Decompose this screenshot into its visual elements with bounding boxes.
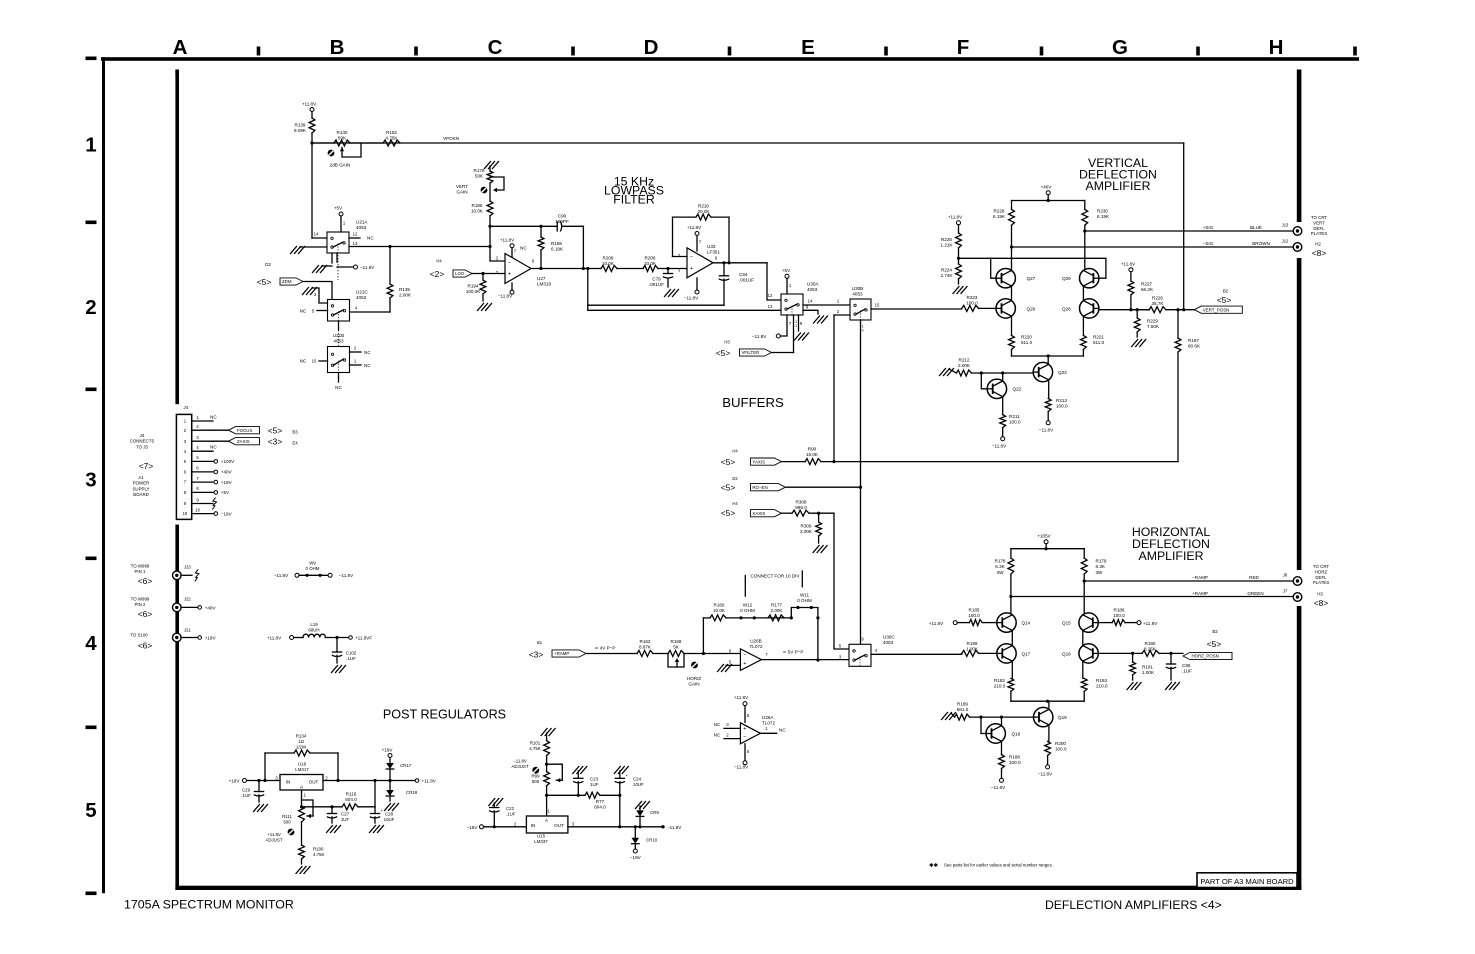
svg-text:1UF: 1UF bbox=[590, 782, 599, 787]
svg-text:POWER: POWER bbox=[133, 481, 150, 486]
svg-text:B2: B2 bbox=[1212, 629, 1218, 634]
svg-text:+19V: +19V bbox=[221, 480, 233, 485]
svg-text:+RAMP: +RAMP bbox=[554, 651, 569, 656]
svg-text:+5V: +5V bbox=[334, 206, 343, 211]
svg-text:6.19K: 6.19K bbox=[1097, 214, 1110, 219]
svg-text:<5>: <5> bbox=[721, 483, 736, 493]
svg-text:W11: W11 bbox=[800, 593, 810, 598]
svg-text:9.09K: 9.09K bbox=[294, 128, 307, 133]
svg-text:GREEN: GREEN bbox=[1247, 591, 1263, 596]
svg-text:8.87K: 8.87K bbox=[639, 645, 652, 650]
svg-text:−11.8V: −11.8V bbox=[734, 765, 749, 770]
svg-text:H: H bbox=[1269, 36, 1284, 59]
svg-text:R224: R224 bbox=[941, 268, 952, 273]
svg-text:RO−EN: RO−EN bbox=[752, 485, 767, 490]
svg-text:−11.8V: −11.8V bbox=[513, 759, 527, 764]
svg-text:H2: H2 bbox=[1315, 242, 1321, 247]
svg-text:R206: R206 bbox=[645, 256, 656, 261]
svg-text:+11.8V: +11.8V bbox=[1143, 621, 1158, 626]
svg-text:1.21K: 1.21K bbox=[940, 243, 953, 248]
svg-text:4053: 4053 bbox=[883, 640, 894, 645]
svg-text:−11.8V: −11.8V bbox=[667, 825, 682, 830]
svg-text:100.0: 100.0 bbox=[1056, 404, 1068, 409]
svg-text:C23: C23 bbox=[590, 777, 599, 782]
svg-text:+: + bbox=[743, 661, 746, 667]
svg-text:5K: 5K bbox=[673, 645, 680, 650]
svg-text:A1: A1 bbox=[138, 475, 144, 480]
svg-text:R179: R179 bbox=[474, 168, 485, 173]
svg-text:CR10: CR10 bbox=[646, 838, 658, 843]
svg-text:+11.8V: +11.8V bbox=[302, 102, 317, 107]
svg-text:TO J5: TO J5 bbox=[136, 444, 148, 449]
svg-text:−RAMP: −RAMP bbox=[1192, 575, 1208, 580]
svg-text:IN: IN bbox=[286, 780, 291, 785]
svg-text:U21C: U21C bbox=[356, 290, 368, 295]
svg-text:R90: R90 bbox=[808, 447, 817, 452]
svg-text:C24: C24 bbox=[633, 777, 642, 782]
svg-text:4: 4 bbox=[85, 632, 97, 655]
svg-text:0: 0 bbox=[861, 329, 863, 333]
svg-text:100.0: 100.0 bbox=[1055, 747, 1067, 752]
svg-text:511.0: 511.0 bbox=[1021, 340, 1033, 345]
svg-text:100.0: 100.0 bbox=[1009, 760, 1021, 765]
svg-text:J13: J13 bbox=[1282, 223, 1289, 228]
svg-text:See parts list for earlier val: See parts list for earlier values and se… bbox=[944, 863, 1053, 868]
svg-text:GAIN: GAIN bbox=[456, 190, 467, 195]
svg-text:100.0K: 100.0K bbox=[466, 289, 481, 294]
svg-text:R197: R197 bbox=[1188, 338, 1199, 343]
svg-text:HORZ_POSN: HORZ_POSN bbox=[1192, 654, 1219, 659]
svg-text:.1UF: .1UF bbox=[346, 656, 356, 661]
svg-text:<5>: <5> bbox=[257, 277, 272, 287]
svg-text:500: 500 bbox=[283, 820, 291, 825]
svg-text:U26B: U26B bbox=[750, 639, 762, 644]
svg-text:C79: C79 bbox=[652, 277, 661, 282]
svg-text:DEFL: DEFL bbox=[1315, 575, 1327, 580]
svg-text:<6>: <6> bbox=[138, 576, 153, 586]
svg-text:10: 10 bbox=[183, 511, 188, 516]
svg-text:U30A: U30A bbox=[807, 282, 819, 287]
svg-text:+11.8V: +11.8V bbox=[267, 832, 281, 837]
svg-text:999.0: 999.0 bbox=[795, 505, 807, 510]
svg-text:TL072: TL072 bbox=[749, 644, 762, 649]
svg-text:NC: NC bbox=[300, 309, 307, 314]
svg-text:100.0: 100.0 bbox=[1009, 420, 1021, 425]
svg-text:68UH: 68UH bbox=[308, 628, 319, 633]
svg-text:+100V: +100V bbox=[221, 459, 235, 464]
svg-text:Q16: Q16 bbox=[1062, 652, 1071, 657]
svg-text:+19V: +19V bbox=[205, 636, 217, 641]
svg-text:−: − bbox=[690, 255, 693, 261]
svg-text:−11.8V: −11.8V bbox=[1038, 772, 1053, 777]
svg-text:AMPLIFIER: AMPLIFIER bbox=[1139, 549, 1204, 563]
svg-text:1UF: 1UF bbox=[341, 817, 350, 822]
svg-text:R229: R229 bbox=[1147, 319, 1158, 324]
svg-text:.1UF: .1UF bbox=[1182, 669, 1192, 674]
svg-text:2.00K: 2.00K bbox=[399, 293, 412, 298]
svg-text:10.0K: 10.0K bbox=[713, 608, 726, 613]
svg-text:<5>: <5> bbox=[1217, 295, 1232, 305]
svg-text:TO W999: TO W999 bbox=[131, 564, 150, 569]
svg-text:VERT: VERT bbox=[456, 184, 468, 189]
svg-text:50K: 50K bbox=[338, 136, 347, 141]
svg-text:R188: R188 bbox=[551, 241, 562, 246]
svg-text:100.0: 100.0 bbox=[966, 301, 978, 306]
svg-text:R199: R199 bbox=[967, 641, 978, 646]
svg-text:2dB GAIN: 2dB GAIN bbox=[330, 163, 351, 168]
svg-text:R139: R139 bbox=[295, 123, 306, 128]
svg-text:H4: H4 bbox=[436, 259, 442, 264]
svg-text:CR9: CR9 bbox=[650, 810, 659, 815]
svg-text:J12: J12 bbox=[1282, 239, 1289, 244]
svg-text:−19V: −19V bbox=[467, 825, 479, 830]
svg-text:+19V: +19V bbox=[382, 748, 394, 753]
svg-text:3W: 3W bbox=[997, 570, 1005, 575]
svg-text:100PF: 100PF bbox=[555, 219, 569, 224]
svg-text:4.75K: 4.75K bbox=[313, 852, 325, 857]
svg-text:+: + bbox=[743, 726, 746, 732]
svg-text:J22: J22 bbox=[184, 597, 191, 602]
svg-text:2.00K: 2.00K bbox=[958, 363, 971, 368]
svg-text:R185: R185 bbox=[969, 608, 980, 613]
svg-text:1.00K: 1.00K bbox=[966, 647, 979, 652]
svg-text:U15: U15 bbox=[537, 834, 546, 839]
svg-text:ADJUST: ADJUST bbox=[511, 764, 528, 769]
svg-text:TO CRT: TO CRT bbox=[1311, 215, 1327, 220]
svg-text:511.0: 511.0 bbox=[1093, 340, 1105, 345]
svg-text:R168: R168 bbox=[671, 639, 682, 644]
svg-text:+19V: +19V bbox=[229, 779, 241, 784]
svg-text:6.3K: 6.3K bbox=[1096, 564, 1106, 569]
svg-text:+11.8V: +11.8V bbox=[687, 225, 702, 230]
svg-text:PART OF A3 MAIN BOARD: PART OF A3 MAIN BOARD bbox=[1200, 877, 1294, 886]
svg-text:VFILTER: VFILTER bbox=[742, 350, 760, 355]
svg-text:210.0: 210.0 bbox=[994, 684, 1006, 689]
svg-text:R200: R200 bbox=[1055, 741, 1066, 746]
svg-text:13: 13 bbox=[768, 304, 773, 309]
svg-text:<5>: <5> bbox=[716, 348, 731, 358]
svg-text:≃ 5V P−P: ≃ 5V P−P bbox=[783, 650, 804, 655]
svg-text:ZDM: ZDM bbox=[282, 279, 292, 284]
svg-text:−: − bbox=[743, 734, 746, 740]
svg-text:+40V: +40V bbox=[205, 605, 217, 610]
svg-text:R177: R177 bbox=[771, 603, 782, 608]
svg-text:2: 2 bbox=[85, 296, 96, 319]
svg-text:10.0K: 10.0K bbox=[471, 209, 484, 214]
svg-text:R135: R135 bbox=[399, 287, 410, 292]
svg-text:604.0: 604.0 bbox=[594, 805, 606, 810]
svg-text:CR17: CR17 bbox=[400, 763, 412, 768]
svg-text:R182: R182 bbox=[994, 678, 1005, 683]
svg-text:NC: NC bbox=[367, 236, 374, 241]
svg-text:8.25K: 8.25K bbox=[1144, 647, 1157, 652]
svg-text:R179: R179 bbox=[1096, 559, 1107, 564]
svg-text:−: − bbox=[508, 260, 511, 266]
svg-text:R191: R191 bbox=[1142, 665, 1153, 670]
svg-text:C102: C102 bbox=[346, 651, 357, 656]
svg-text:✱✱: ✱✱ bbox=[929, 863, 938, 869]
svg-text:1705A SPECTRUM MONITOR: 1705A SPECTRUM MONITOR bbox=[124, 898, 294, 912]
svg-text:IN: IN bbox=[531, 823, 536, 828]
svg-text:+40V: +40V bbox=[221, 470, 233, 475]
svg-text:R140: R140 bbox=[337, 130, 348, 135]
svg-text:10UF: 10UF bbox=[384, 817, 395, 822]
svg-text:NC: NC bbox=[300, 359, 307, 364]
svg-text:56.2K: 56.2K bbox=[1141, 287, 1154, 292]
svg-text:R308: R308 bbox=[796, 500, 807, 505]
svg-text:R186: R186 bbox=[472, 203, 483, 208]
svg-text:0 OHM: 0 OHM bbox=[306, 566, 320, 571]
svg-text:R226: R226 bbox=[1152, 296, 1163, 301]
svg-text:<7>: <7> bbox=[139, 461, 154, 471]
svg-text:6.3K: 6.3K bbox=[995, 564, 1005, 569]
svg-text:BUFFERS: BUFFERS bbox=[722, 395, 784, 410]
svg-text:681.0: 681.0 bbox=[957, 707, 969, 712]
svg-text:<5>: <5> bbox=[268, 426, 283, 436]
svg-text:<6>: <6> bbox=[138, 609, 153, 619]
svg-text:W12: W12 bbox=[743, 603, 753, 608]
svg-text:.1UF: .1UF bbox=[241, 793, 251, 798]
svg-text:G: G bbox=[1112, 36, 1128, 59]
svg-text:5: 5 bbox=[85, 799, 96, 822]
svg-text:H4: H4 bbox=[732, 449, 738, 454]
svg-text:B3: B3 bbox=[292, 430, 298, 435]
svg-text:<2>: <2> bbox=[430, 269, 445, 279]
svg-text:SUPPLY: SUPPLY bbox=[132, 486, 149, 491]
svg-text:C29: C29 bbox=[242, 788, 251, 793]
svg-text:NC: NC bbox=[335, 385, 342, 390]
svg-text:10: 10 bbox=[195, 507, 200, 512]
svg-text:CR18: CR18 bbox=[406, 790, 418, 795]
svg-text:−11.8V: −11.8V bbox=[1039, 428, 1054, 433]
svg-text:XAXIS: XAXIS bbox=[752, 511, 765, 516]
svg-text:R99: R99 bbox=[531, 774, 540, 779]
svg-text:+11.8V: +11.8V bbox=[929, 621, 944, 626]
svg-text:100.0: 100.0 bbox=[1113, 613, 1125, 618]
svg-text:4053: 4053 bbox=[852, 292, 863, 297]
svg-text:3W: 3W bbox=[1096, 570, 1104, 575]
svg-text:U30C: U30C bbox=[883, 635, 895, 640]
svg-text:−11.8V: −11.8V bbox=[498, 294, 513, 299]
svg-text:−19V: −19V bbox=[221, 511, 233, 516]
svg-text:YAXIS: YAXIS bbox=[752, 459, 765, 464]
svg-text:12: 12 bbox=[768, 293, 773, 298]
svg-text:13: 13 bbox=[353, 241, 358, 246]
svg-text:4053: 4053 bbox=[356, 295, 367, 300]
svg-text:H4: H4 bbox=[732, 501, 738, 506]
svg-text:TO W999: TO W999 bbox=[131, 597, 150, 602]
svg-text:2.74K: 2.74K bbox=[940, 273, 953, 278]
svg-text:U30B: U30B bbox=[852, 286, 864, 291]
svg-text:+105V: +105V bbox=[1037, 534, 1051, 539]
svg-text:HORIZ: HORIZ bbox=[687, 676, 701, 681]
svg-text:<3>: <3> bbox=[268, 437, 283, 447]
svg-text:+SIG: +SIG bbox=[1203, 225, 1214, 230]
svg-text:R186: R186 bbox=[1114, 608, 1125, 613]
svg-text:<6>: <6> bbox=[138, 641, 153, 651]
svg-text:TO S100: TO S100 bbox=[130, 633, 148, 638]
svg-text:<8>: <8> bbox=[1312, 248, 1327, 258]
svg-text:TL072: TL072 bbox=[762, 721, 775, 726]
svg-text:50K: 50K bbox=[475, 174, 484, 179]
svg-text:W9: W9 bbox=[309, 561, 316, 566]
svg-text:NC: NC bbox=[364, 363, 371, 368]
svg-text:R178: R178 bbox=[995, 559, 1006, 564]
svg-text:NC: NC bbox=[210, 415, 217, 420]
svg-text:R209: R209 bbox=[603, 256, 614, 261]
svg-text:Q27: Q27 bbox=[1027, 276, 1036, 281]
svg-text:D2: D2 bbox=[732, 476, 738, 481]
svg-text:+11.8V: +11.8V bbox=[422, 779, 437, 784]
svg-text:2.00K: 2.00K bbox=[770, 608, 783, 613]
svg-text:4.75K: 4.75K bbox=[385, 136, 398, 141]
svg-text:R100: R100 bbox=[313, 847, 324, 852]
svg-text:<8>: <8> bbox=[1314, 598, 1329, 608]
svg-text:R162: R162 bbox=[640, 639, 651, 644]
svg-text:LF351: LF351 bbox=[707, 250, 720, 255]
svg-text:10.0K: 10.0K bbox=[602, 261, 615, 266]
svg-text:R211: R211 bbox=[1009, 414, 1020, 419]
svg-text:GAIN: GAIN bbox=[688, 682, 699, 687]
svg-text:C22: C22 bbox=[506, 806, 515, 811]
svg-text:LM318: LM318 bbox=[537, 282, 551, 287]
svg-text:PLATES: PLATES bbox=[1313, 580, 1330, 585]
svg-text:R116: R116 bbox=[346, 792, 357, 797]
svg-text:FOCUS: FOCUS bbox=[237, 428, 252, 433]
svg-text:Q22: Q22 bbox=[1013, 387, 1022, 392]
svg-text:15.0K: 15.0K bbox=[806, 452, 819, 457]
svg-text:<5>: <5> bbox=[1207, 639, 1222, 649]
svg-text:Q26: Q26 bbox=[1027, 307, 1036, 312]
svg-text:NC: NC bbox=[210, 445, 217, 450]
svg-text:0 OHM: 0 OHM bbox=[740, 608, 755, 613]
svg-text:+11.8V: +11.8V bbox=[948, 215, 963, 220]
svg-text:U33: U33 bbox=[707, 244, 716, 249]
svg-text:NC: NC bbox=[779, 728, 786, 733]
svg-text:1.00K: 1.00K bbox=[1142, 670, 1155, 675]
svg-text:PLATES: PLATES bbox=[1311, 231, 1328, 236]
svg-text:C84: C84 bbox=[739, 272, 748, 277]
svg-text:<3>: <3> bbox=[529, 650, 544, 660]
svg-text:15: 15 bbox=[312, 359, 317, 364]
svg-text:BROWN: BROWN bbox=[1252, 241, 1270, 246]
svg-text:80.6K: 80.6K bbox=[1188, 344, 1201, 349]
svg-text:+11.8V: +11.8V bbox=[267, 636, 282, 641]
svg-text:NC: NC bbox=[714, 733, 721, 738]
svg-text:+40V: +40V bbox=[1041, 184, 1053, 189]
svg-text:R101: R101 bbox=[530, 741, 541, 746]
svg-text:R220: R220 bbox=[1021, 335, 1032, 340]
svg-text:CONNECTS: CONNECTS bbox=[130, 439, 155, 444]
svg-text:+11.8V: +11.8V bbox=[500, 238, 515, 243]
svg-text:R223: R223 bbox=[967, 295, 978, 300]
svg-text:−11.8V: −11.8V bbox=[992, 444, 1007, 449]
svg-text:B1: B1 bbox=[537, 640, 543, 645]
svg-text:B2: B2 bbox=[1223, 289, 1229, 294]
svg-text:1Ω: 1Ω bbox=[298, 739, 304, 744]
svg-text:R212: R212 bbox=[959, 358, 970, 363]
svg-text:+: + bbox=[690, 266, 693, 272]
svg-text:35.7K: 35.7K bbox=[1151, 301, 1164, 306]
svg-text:Q23: Q23 bbox=[1058, 370, 1067, 375]
svg-text:PIN 1: PIN 1 bbox=[135, 569, 147, 574]
svg-text:2.00K: 2.00K bbox=[800, 529, 813, 534]
svg-text:−11.8V: −11.8V bbox=[339, 573, 354, 578]
svg-text:VERT: VERT bbox=[1313, 220, 1325, 225]
svg-text:20.0K: 20.0K bbox=[697, 209, 710, 214]
svg-text:R193: R193 bbox=[1096, 678, 1107, 683]
svg-text:LM337: LM337 bbox=[534, 839, 548, 844]
svg-text:R189: R189 bbox=[957, 702, 968, 707]
svg-text:10UF: 10UF bbox=[633, 782, 644, 787]
svg-text:Q29: Q29 bbox=[1062, 276, 1071, 281]
svg-text:0 OHM: 0 OHM bbox=[797, 598, 812, 603]
svg-text:4053: 4053 bbox=[807, 287, 818, 292]
svg-text:14: 14 bbox=[314, 232, 319, 237]
svg-text:14: 14 bbox=[808, 299, 813, 304]
svg-text:≃ 4V P−P: ≃ 4V P−P bbox=[595, 646, 616, 651]
svg-text:J21: J21 bbox=[184, 628, 191, 633]
svg-text:−SIG: −SIG bbox=[1203, 241, 1214, 246]
svg-text:D: D bbox=[644, 36, 659, 59]
svg-text:PIN 2: PIN 2 bbox=[135, 602, 147, 607]
svg-text:C85: C85 bbox=[1182, 663, 1191, 668]
svg-text:LM317: LM317 bbox=[295, 767, 309, 772]
svg-text:+5V: +5V bbox=[221, 490, 230, 495]
svg-text:15: 15 bbox=[875, 303, 880, 308]
svg-text:J8: J8 bbox=[1283, 573, 1288, 578]
svg-text:.1UF: .1UF bbox=[506, 812, 516, 817]
svg-text:RED: RED bbox=[1249, 575, 1259, 580]
svg-text:R190: R190 bbox=[1145, 641, 1156, 646]
svg-text:4053: 4053 bbox=[356, 225, 367, 230]
svg-text:<5>: <5> bbox=[721, 508, 736, 518]
svg-text:F: F bbox=[957, 36, 970, 59]
svg-text:4.75K: 4.75K bbox=[529, 746, 541, 751]
svg-text:OUT: OUT bbox=[309, 780, 319, 785]
svg-text:7.50K: 7.50K bbox=[1147, 324, 1160, 329]
svg-text:−11.8V: −11.8V bbox=[684, 296, 699, 301]
svg-text:R225: R225 bbox=[941, 237, 952, 242]
svg-text:3: 3 bbox=[85, 469, 96, 492]
svg-text:100.0: 100.0 bbox=[968, 613, 980, 618]
svg-text:B: B bbox=[330, 36, 345, 59]
svg-text:U18: U18 bbox=[298, 762, 307, 767]
svg-text:Q14: Q14 bbox=[1022, 621, 1031, 626]
svg-text:.001UF: .001UF bbox=[739, 278, 754, 283]
svg-text:H3: H3 bbox=[1317, 592, 1323, 597]
svg-text:VERT_POSN: VERT_POSN bbox=[1203, 307, 1230, 312]
svg-text:BLUE: BLUE bbox=[1250, 225, 1262, 230]
svg-text:R309: R309 bbox=[801, 524, 812, 529]
svg-text:R152: R152 bbox=[386, 130, 397, 135]
svg-text:−: − bbox=[743, 653, 746, 659]
svg-text:NC: NC bbox=[520, 246, 527, 251]
svg-text:R221: R221 bbox=[1093, 335, 1104, 340]
svg-text:D2: D2 bbox=[265, 262, 271, 267]
svg-text:−11.8V: −11.8V bbox=[991, 785, 1006, 790]
svg-text:+RAMP: +RAMP bbox=[1192, 591, 1208, 596]
svg-text:C90: C90 bbox=[558, 214, 567, 219]
svg-text:L19: L19 bbox=[310, 622, 318, 627]
svg-text:U26A: U26A bbox=[762, 715, 774, 720]
svg-text:U21A: U21A bbox=[356, 220, 368, 225]
svg-text:604.0: 604.0 bbox=[345, 797, 357, 802]
svg-text:C27: C27 bbox=[341, 812, 350, 817]
svg-text:R160: R160 bbox=[714, 603, 725, 608]
svg-text:Q19: Q19 bbox=[1058, 715, 1067, 720]
svg-text:ADJUST: ADJUST bbox=[265, 838, 282, 843]
